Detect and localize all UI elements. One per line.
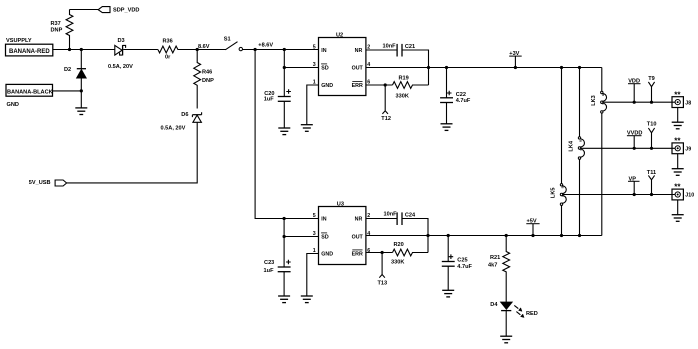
svg-text:+8.6V: +8.6V <box>258 43 273 49</box>
svg-text:0.5A, 20V: 0.5A, 20V <box>161 126 186 132</box>
test point T11 <box>648 175 654 194</box>
svg-text:J8: J8 <box>685 100 691 106</box>
node BANANA-BLACK junction <box>80 89 83 92</box>
wire OUT rail +5V <box>366 235 602 237</box>
svg-text:10nF: 10nF <box>384 212 398 218</box>
svg-text:C25: C25 <box>457 258 467 264</box>
svg-text:4k7: 4k7 <box>488 262 497 268</box>
svg-text:1uF: 1uF <box>264 268 275 274</box>
node C21/R19 on OUT <box>427 66 430 69</box>
svg-text:U2: U2 <box>336 32 343 38</box>
svg-text:A: A <box>578 149 582 151</box>
wire C21 to OUT rail <box>402 50 429 85</box>
wire C23 branch <box>283 219 285 268</box>
node C20 top <box>283 48 286 51</box>
node LK4 top rail <box>578 66 581 69</box>
ground under C22 <box>441 124 453 131</box>
capacitor C21 <box>396 44 398 57</box>
svg-text:B: B <box>578 140 582 142</box>
svg-text:GND: GND <box>321 83 333 89</box>
link LK5 <box>560 184 562 186</box>
svg-text:A: A <box>560 195 564 197</box>
svg-text:J10: J10 <box>685 193 694 199</box>
svg-text:R19: R19 <box>399 75 409 81</box>
svg-text:OUT: OUT <box>352 234 364 240</box>
svg-text:BANANA-RED: BANANA-RED <box>9 49 50 55</box>
svg-text:C23: C23 <box>264 260 274 266</box>
node R37/main junction <box>68 48 71 51</box>
node LK5 bottom rail <box>560 234 563 237</box>
test point T9 <box>648 82 654 102</box>
op-amp U2 regulator box <box>319 38 366 96</box>
node 8.6V <box>196 48 199 51</box>
wire ERR stub U2 <box>366 84 393 86</box>
svg-text:ERR: ERR <box>352 251 363 257</box>
svg-text:T12: T12 <box>381 116 391 122</box>
node C23 top <box>283 217 286 220</box>
diode D3 <box>115 45 122 55</box>
svg-text:OUT: OUT <box>352 65 364 71</box>
wire OUT rail +3V <box>366 67 602 69</box>
ground under C23 <box>278 296 290 303</box>
wire +3V rail corner down to LK3 <box>601 68 603 92</box>
svg-text:**: ** <box>674 90 681 99</box>
ground under J8 <box>672 122 684 129</box>
svg-text:R37: R37 <box>51 21 61 27</box>
ground under D2 <box>75 108 87 115</box>
wire D4 to ground <box>505 311 507 337</box>
svg-text:D4: D4 <box>490 302 498 308</box>
resistor R20 <box>393 249 429 256</box>
wire LK5 vertical bottom <box>561 205 563 235</box>
connector J10 <box>672 189 683 200</box>
svg-text:U3: U3 <box>337 202 344 208</box>
svg-text:NR: NR <box>355 216 363 222</box>
svg-text:5: 5 <box>313 213 316 219</box>
node T12 <box>384 83 387 86</box>
node R21 <box>505 234 508 237</box>
svg-text:T9: T9 <box>648 76 655 82</box>
svg-text:LK4: LK4 <box>569 140 575 151</box>
ground under C20 <box>278 128 290 135</box>
ground under J9 <box>672 169 684 176</box>
resistor R46 <box>194 50 201 109</box>
svg-text:R21: R21 <box>490 255 500 261</box>
svg-text:J9: J9 <box>685 147 691 153</box>
wire C25 to ground <box>447 266 449 290</box>
wire SDP_VDD to R37 <box>70 9 99 11</box>
svg-text:B: B <box>601 94 605 96</box>
op-amp U3 regulator box <box>319 207 366 265</box>
svg-text:NR: NR <box>355 48 363 54</box>
LED D4 <box>501 302 513 309</box>
svg-text:6: 6 <box>367 248 370 254</box>
wire C23 to ground <box>283 272 285 296</box>
svg-text:B: B <box>560 186 564 188</box>
wire J8 to ground <box>677 108 679 123</box>
connector J8 <box>672 97 683 108</box>
svg-text:SD: SD <box>321 65 329 71</box>
node SD branch U2 <box>283 66 286 69</box>
connector SDP_VDD <box>98 7 110 13</box>
node LK4 bottom rail <box>578 234 581 237</box>
svg-text:**: ** <box>674 183 681 192</box>
wire C22 to ground <box>446 103 448 124</box>
svg-text:T13: T13 <box>378 280 388 286</box>
connector 5V_USB <box>55 180 67 186</box>
svg-text:R36: R36 <box>163 38 173 44</box>
capacitor C24 <box>396 212 398 225</box>
svg-text:4: 4 <box>367 231 370 237</box>
wire D6 to 5V_USB <box>67 122 198 183</box>
svg-text:1: 1 <box>313 248 316 254</box>
capacitor C22 <box>446 68 448 98</box>
node +8.6V <box>254 48 257 51</box>
svg-text:D6: D6 <box>181 112 188 118</box>
capacitor C23 <box>278 266 291 268</box>
svg-text:A: A <box>601 103 605 105</box>
svg-text:LK3: LK3 <box>591 95 597 106</box>
node LK5 top rail <box>560 66 563 69</box>
wire switch to +8.6V node <box>243 49 319 51</box>
svg-text:10nF: 10nF <box>383 44 397 50</box>
wire U3 GND stub <box>307 254 319 296</box>
resistor R21 <box>503 236 510 303</box>
test point T10 <box>648 128 654 148</box>
resistor R37 <box>66 10 73 50</box>
test point T13 <box>379 253 385 278</box>
svg-text:R46: R46 <box>202 70 212 76</box>
node D2 junction <box>80 48 83 51</box>
svg-text:C24: C24 <box>405 212 416 218</box>
svg-text:GND: GND <box>321 251 333 257</box>
svg-text:DNP: DNP <box>51 28 63 34</box>
link LK3 <box>601 91 603 93</box>
svg-text:D2: D2 <box>64 67 71 73</box>
link LK4 <box>578 137 580 139</box>
connector BANANA-RED <box>6 44 53 56</box>
wire SD stub U3 <box>284 236 318 238</box>
wire NR stub U3 <box>366 218 397 220</box>
node C24/R20 on OUT <box>426 234 429 237</box>
wire main rail left <box>53 49 115 51</box>
ground under C25 <box>442 290 454 297</box>
svg-text:4.7uF: 4.7uF <box>456 98 471 104</box>
resistor R19 <box>393 82 429 89</box>
diode D6 zener <box>193 115 202 122</box>
ground under U2 <box>301 125 313 132</box>
svg-text:SDP_VDD: SDP_VDD <box>113 8 139 14</box>
wire D2 to ground <box>80 91 82 108</box>
wire BANANA-BLACK to D2 <box>53 90 82 92</box>
wire SD stub U2 <box>284 67 318 69</box>
wire node to switch <box>197 49 226 51</box>
wire +8.6V down to U3 <box>255 50 318 219</box>
wire C20 branch <box>283 50 285 97</box>
resistor R36 <box>158 46 197 53</box>
wire LK5 to J10 <box>563 194 676 196</box>
node T13 <box>381 251 384 254</box>
svg-text:4.7uF: 4.7uF <box>457 264 472 270</box>
node SD branch U3 <box>283 235 286 238</box>
wire LK3 bottom down <box>601 113 603 236</box>
svg-text:VSUPPLY: VSUPPLY <box>6 38 32 44</box>
wire U2 GND stub <box>307 85 319 125</box>
wire J10 to ground <box>677 200 679 215</box>
node C22 <box>445 66 448 69</box>
svg-text:LK5: LK5 <box>551 188 557 199</box>
svg-text:5V_USB: 5V_USB <box>29 180 51 186</box>
wire LK3 to J8 <box>603 101 675 103</box>
svg-text:1: 1 <box>313 80 316 86</box>
svg-text:1uF: 1uF <box>264 96 275 102</box>
wire C20 to ground <box>283 101 285 128</box>
switch S1 <box>225 42 237 50</box>
wire D3 to R36 <box>123 49 158 51</box>
svg-text:C21: C21 <box>405 44 415 50</box>
ground under D4 <box>500 336 512 343</box>
wire NR stub U2 <box>366 49 397 51</box>
svg-text:ERR: ERR <box>352 83 363 89</box>
diode D2 <box>80 50 82 69</box>
svg-text:RED: RED <box>526 311 538 317</box>
svg-text:0r: 0r <box>165 55 171 61</box>
svg-text:330K: 330K <box>396 93 409 99</box>
svg-text:0.5A, 20V: 0.5A, 20V <box>108 64 133 70</box>
svg-text:S1: S1 <box>224 37 231 43</box>
svg-text:R20: R20 <box>394 242 404 248</box>
connector BANANA-BLACK <box>6 84 53 96</box>
svg-text:BANANA-BLACK: BANANA-BLACK <box>7 90 53 96</box>
svg-text:GND: GND <box>7 102 19 108</box>
svg-text:SD: SD <box>321 234 329 240</box>
svg-text:IN: IN <box>321 216 326 222</box>
svg-text:T11: T11 <box>647 170 656 176</box>
connector J9 <box>672 143 683 154</box>
svg-text:T10: T10 <box>647 122 657 128</box>
svg-text:5: 5 <box>313 45 316 51</box>
wire LK4 vertical top <box>579 68 581 138</box>
wire LK5 vertical top <box>561 68 563 184</box>
svg-text:**: ** <box>674 137 681 146</box>
wire ERR stub U3 <box>366 252 393 254</box>
svg-text:C22: C22 <box>456 92 466 98</box>
svg-text:3: 3 <box>313 231 316 237</box>
svg-text:IN: IN <box>321 48 326 54</box>
wire C24 to OUT rail <box>402 219 428 253</box>
capacitor C25 <box>447 236 449 262</box>
capacitor C20 <box>278 96 291 98</box>
svg-text:330K: 330K <box>391 260 404 266</box>
node C25 <box>447 234 450 237</box>
svg-text:D3: D3 <box>118 38 125 44</box>
wire LK4 to J9 <box>581 147 676 149</box>
ground under U3 <box>301 296 313 303</box>
svg-text:DNP: DNP <box>202 78 214 84</box>
test point T12 <box>382 85 388 114</box>
ground under J10 <box>672 215 684 222</box>
svg-text:3: 3 <box>313 62 316 68</box>
wire LK4 vertical bottom <box>579 159 581 235</box>
wire J9 to ground <box>677 154 679 169</box>
